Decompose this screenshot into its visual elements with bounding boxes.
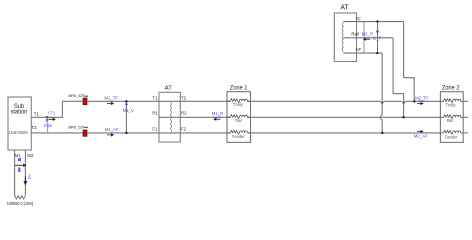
wire zone2 trolly stub right (463, 100, 468, 102)
svg-text:Trolly: Trolly (446, 102, 457, 107)
breaker BRK_52F bottom box (83, 130, 87, 136)
node junction rail (402, 116, 404, 118)
node junction M1_V bottom (125, 132, 127, 134)
wire sub stub right (24, 150, 26, 196)
wire AF drop vertical upper (381, 53, 383, 115)
wire trolly seg D (384, 100, 402, 102)
wire trolly seg B (87, 100, 230, 102)
meter blue glyph bottom (18, 167, 20, 172)
svg-text:M1: M1 (15, 153, 22, 158)
impedance Z1 rail (R+L) (227, 115, 250, 119)
svg-text:154kV/55kV: 154kV/55kV (9, 130, 29, 135)
wire T1 horizontal (31, 116, 62, 118)
coil AT top winding (342, 22, 343, 51)
svg-text:T2: T2 (181, 95, 187, 100)
resistor R ground 100000 ohm (15, 196, 26, 199)
wire trolly seg A (62, 100, 83, 102)
wire rail drop vertical (392, 38, 394, 94)
node junction AF link (376, 52, 378, 54)
voltmeter E55 vertical (47, 117, 49, 133)
wire T1 riser (61, 101, 63, 118)
arrow M1_AF right (107, 134, 113, 136)
svg-text:Feeder: Feeder (445, 134, 458, 139)
svg-text:AT: AT (341, 5, 350, 12)
svg-text:Rail: Rail (235, 118, 241, 123)
arrow M2_R left (364, 38, 370, 40)
node junction feeder AF (381, 132, 383, 134)
blue overlay wire at IT1 (45, 116, 56, 118)
voltmeter M1_V vertical (125, 101, 127, 133)
svg-text:TF: TF (356, 16, 362, 21)
wire TF drop elbow (404, 78, 415, 102)
impedance Z1 feeder (R+L) (227, 130, 250, 134)
wire T2 horizontal (31, 132, 83, 134)
svg-text:W2: W2 (27, 153, 34, 158)
wire rail drop elbow (393, 94, 404, 118)
autotransformer AT top box (334, 13, 356, 62)
impedance Z2 rail (R+L) (440, 115, 463, 119)
hop arc AF drop over rail (380, 115, 382, 119)
svg-text:BRK_52F: BRK_52F (69, 125, 86, 129)
wire feeder seg B (248, 132, 441, 134)
breaker BRK_52F top box (83, 98, 87, 105)
svg-text:BRK_52F: BRK_52F (69, 94, 86, 98)
wire AF drop vertical lower (381, 119, 383, 132)
wire trolly seg E (405, 100, 440, 102)
impedance Z2 trolly (R+L) (440, 99, 463, 103)
substation SS box (8, 97, 31, 150)
svg-text:R1: R1 (152, 111, 158, 116)
arrow M1_R left (214, 118, 221, 120)
wire TF-AF link vertical (377, 22, 379, 53)
arrow M1_V up (125, 103, 127, 107)
arrow IAT up (376, 30, 378, 36)
svg-text:M1_V: M1_V (123, 108, 134, 113)
arrow ground current down (24, 177, 26, 185)
impedance Z1 trolly (R+L) (227, 99, 250, 103)
wire sub stub left (14, 150, 16, 196)
svg-text:F1: F1 (152, 126, 158, 131)
svg-text:T1: T1 (34, 112, 40, 117)
impedance Z2 feeder (R+L) (440, 130, 463, 134)
svg-text:F2: F2 (181, 126, 187, 131)
svg-text:T1: T1 (152, 95, 158, 100)
meter blue glyph top (18, 158, 21, 161)
arrow M2_TF right (417, 103, 423, 105)
svg-text:AF: AF (356, 47, 362, 52)
svg-text:station: station (11, 109, 28, 116)
arrow meter horizontal (15, 164, 26, 166)
arrow E55 up (46, 119, 48, 122)
svg-text:Trolly: Trolly (233, 102, 244, 107)
svg-text:Feeder: Feeder (232, 134, 245, 139)
arrow M2_AF right (417, 131, 423, 133)
svg-text:AT: AT (165, 85, 173, 91)
wire AF from AT top (343, 52, 382, 54)
node junction at T1/E55 (46, 116, 48, 118)
AT top winding frame right edge (363, 22, 365, 53)
svg-text:M1_R: M1_R (212, 111, 223, 116)
svg-text:E55: E55 (44, 123, 52, 128)
wire rail seg B (248, 116, 441, 118)
svg-text:I1_F: I1_F (373, 36, 382, 41)
wire TF from AT top (343, 21, 403, 23)
coil AT mid winding (170, 101, 171, 133)
svg-text:Zone 2: Zone 2 (442, 85, 460, 92)
zone 2 box (440, 92, 463, 143)
zone 1 box (227, 92, 251, 143)
svg-text:Rail: Rail (447, 118, 453, 123)
hop chevron trolly at AF drop (381, 102, 384, 104)
blue overlay wire at M2_TF (418, 100, 425, 102)
arrow IT1 right (49, 118, 56, 120)
svg-text:M1_TF: M1_TF (104, 96, 118, 101)
hop chevron trolly at rail drop (402, 102, 405, 104)
svg-text:IT1: IT1 (48, 111, 56, 116)
svg-text:100000.0 [ohm]: 100000.0 [ohm] (7, 201, 34, 206)
autotransformer AT mid box (159, 92, 180, 142)
svg-text:M1_AF: M1_AF (105, 127, 119, 132)
node junction M1_V top (125, 100, 127, 102)
svg-text:M2_TF: M2_TF (415, 96, 429, 101)
wire feeder seg A (87, 132, 230, 134)
svg-text:T2: T2 (31, 125, 37, 130)
svg-text:M2_AF: M2_AF (414, 133, 428, 138)
svg-text:Rail: Rail (351, 32, 358, 37)
wire rail seg A (159, 116, 230, 118)
wire Rail from AT top (343, 37, 393, 39)
node junction trolly TF (413, 100, 415, 102)
svg-text:R2: R2 (181, 111, 187, 116)
wire trolly seg C (248, 100, 381, 102)
blue overlay wire at M1_R (212, 116, 221, 118)
node junction TF link (376, 20, 378, 22)
arrow M1_TF right (107, 102, 113, 104)
wire zone2 feeder stub right (463, 132, 468, 134)
wire TF drop vertical (403, 22, 405, 78)
wire zone2 rail stub right (463, 116, 468, 118)
svg-text:Ia1: Ia1 (28, 175, 32, 180)
svg-text:M2_R: M2_R (362, 32, 373, 37)
svg-text:Zone 1: Zone 1 (230, 85, 248, 92)
